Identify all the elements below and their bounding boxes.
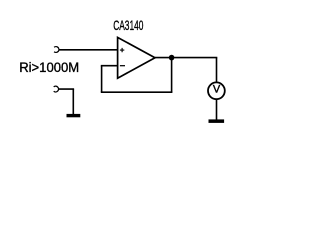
wire feedback left vertical bbox=[101, 66, 103, 93]
voltmeter V1 bbox=[208, 82, 225, 99]
wire feedback bottom horizontal bbox=[101, 91, 173, 93]
wire down to voltmeter bbox=[216, 58, 218, 82]
ground (right, below voltmeter) bbox=[209, 119, 225, 123]
op-amp U1 CA3140 triangle bbox=[118, 37, 155, 78]
op-amp + pin mark bbox=[120, 48, 124, 52]
ground (left, below J2) bbox=[67, 114, 81, 117]
op-amp - pin mark bbox=[120, 65, 125, 67]
wire J2 down bbox=[72, 89, 74, 114]
svg-text:CA3140: CA3140 bbox=[113, 17, 143, 33]
wire voltmeter to ground bbox=[216, 100, 218, 120]
wire - input stub left of op-amp bbox=[101, 65, 117, 67]
wire feedback right vertical to output node bbox=[171, 58, 173, 93]
terminal J2 (ground reference input) bbox=[54, 86, 59, 92]
wire J1 to op-amp + input bbox=[59, 49, 117, 51]
terminal J1 (+ input) bbox=[54, 47, 59, 53]
svg-text:V: V bbox=[213, 84, 221, 96]
wire J2 right bbox=[58, 88, 74, 90]
node output junction bbox=[169, 55, 175, 61]
wire op-amp output to corner bbox=[155, 57, 217, 59]
svg-text:Ri>1000M: Ri>1000M bbox=[19, 59, 79, 75]
